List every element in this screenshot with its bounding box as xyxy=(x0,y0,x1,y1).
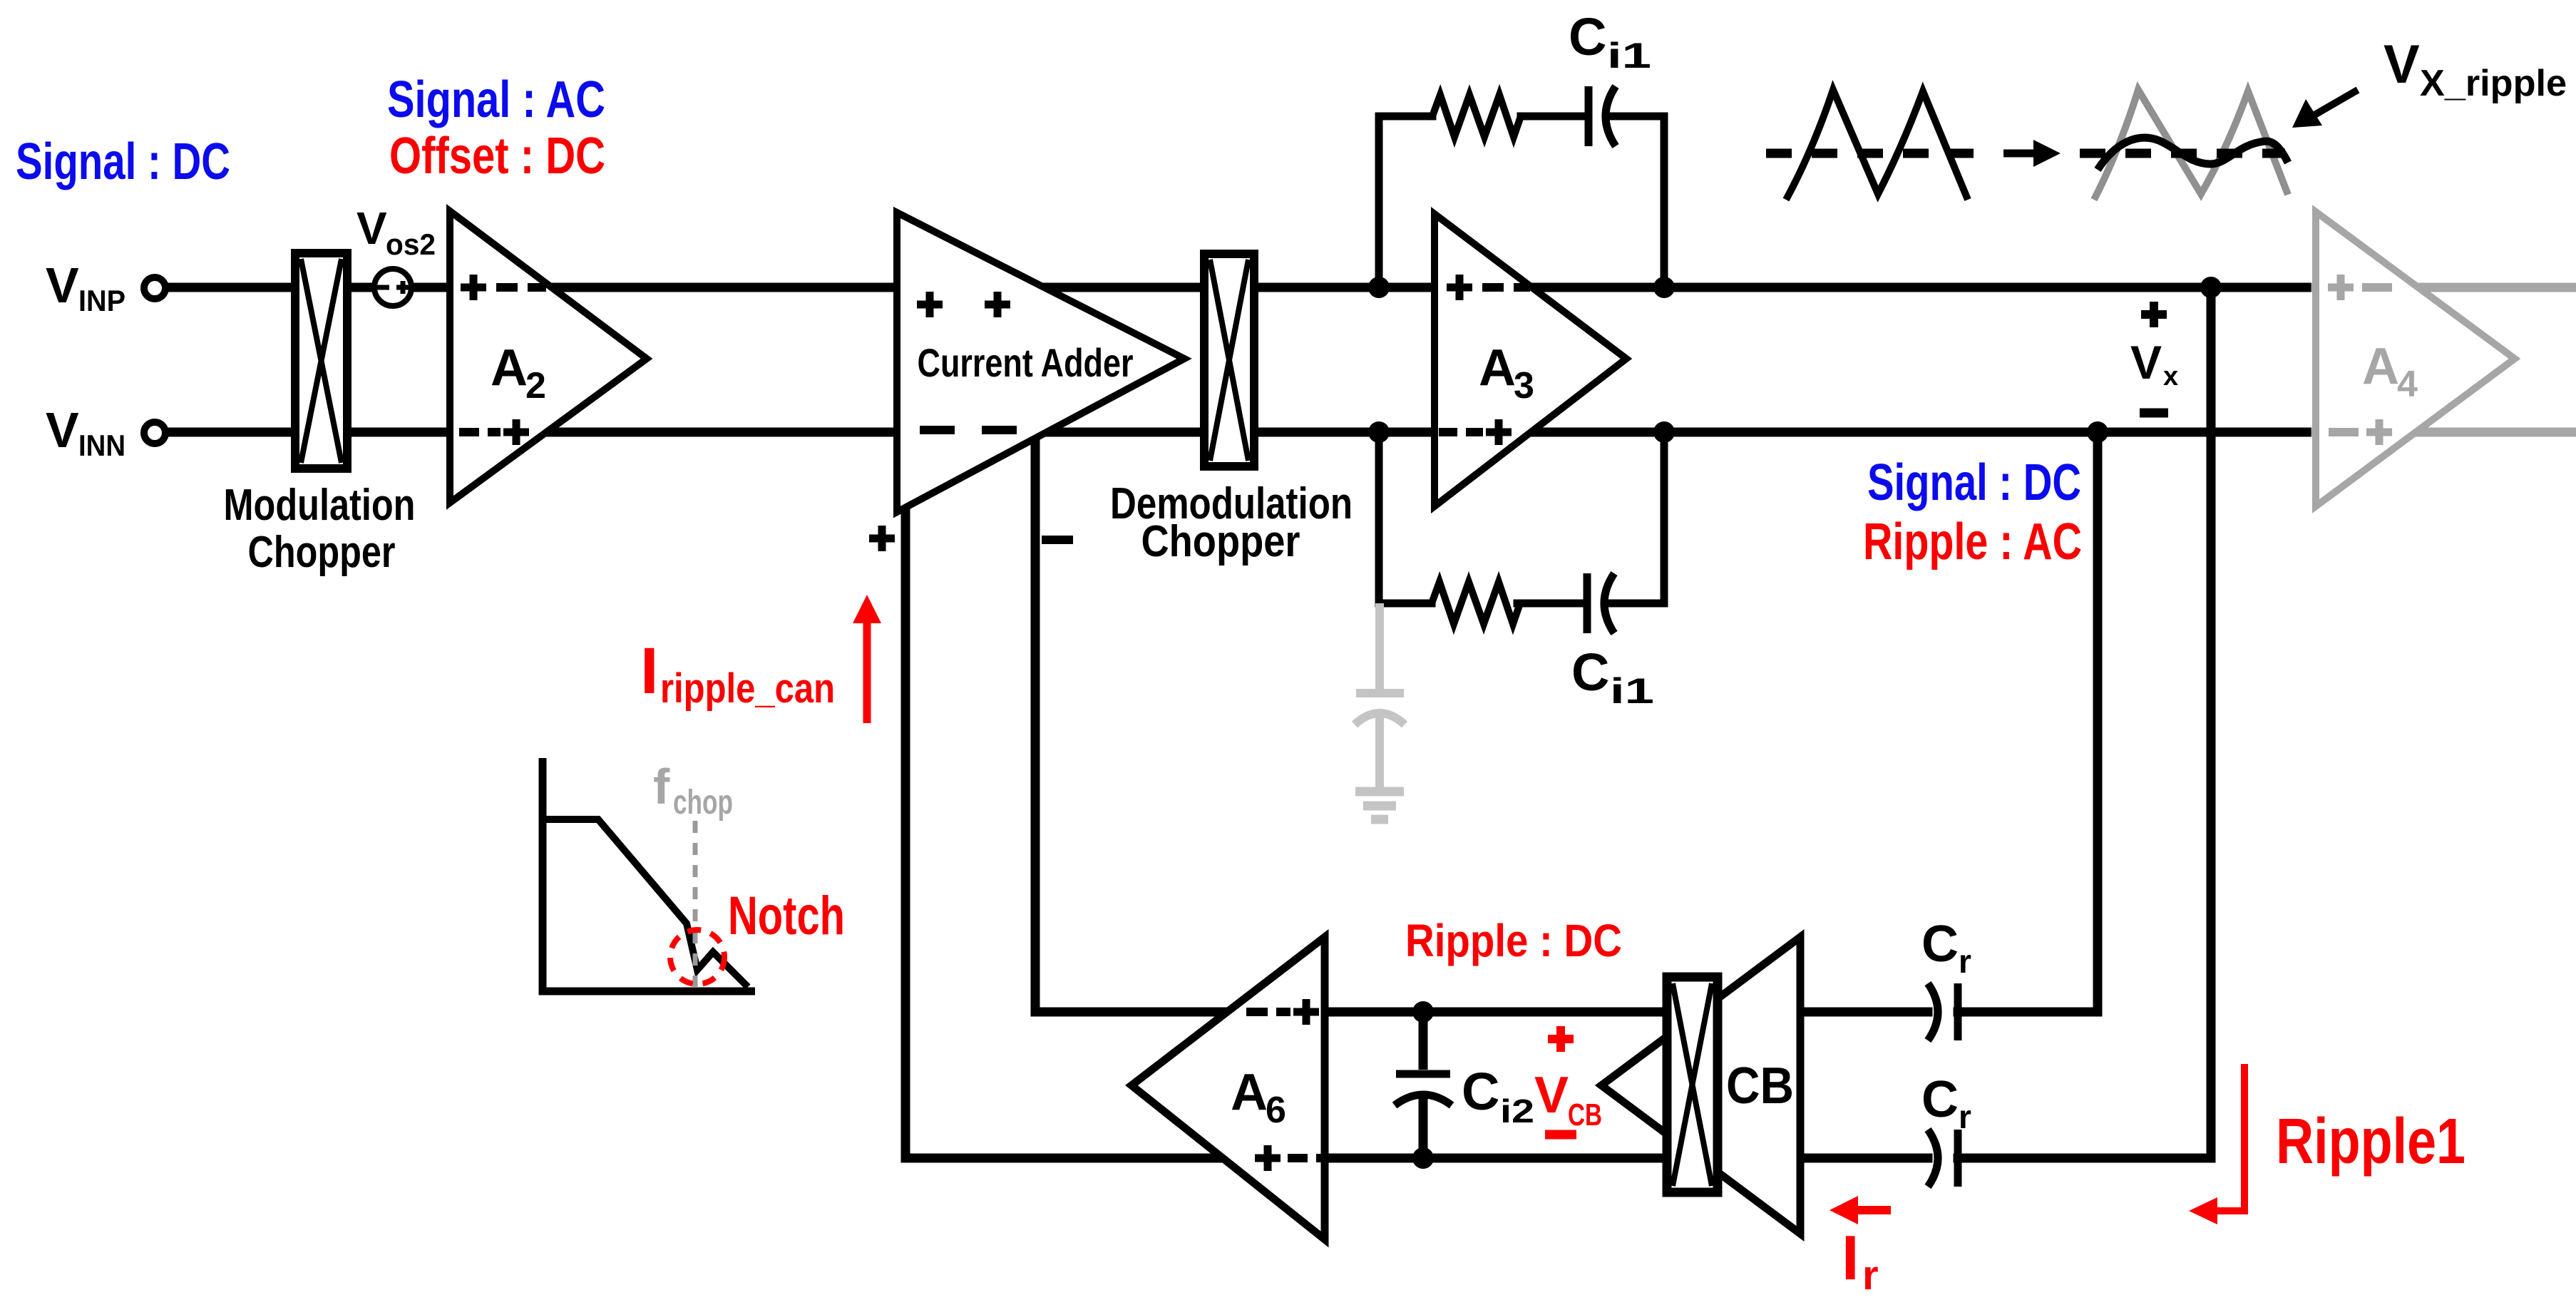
svg-text:C: C xyxy=(1462,1062,1499,1121)
wire vertical from top main wire down to ripple-loop bottom wire xyxy=(2207,287,2216,1158)
svg-text:CB: CB xyxy=(1568,1097,1602,1132)
svg-text:V: V xyxy=(2383,34,2420,95)
svg-text:i1: i1 xyxy=(1610,671,1654,711)
Current Adder bottom input marks (- -) xyxy=(920,426,1018,434)
capacitor Ci2 (vertical, straight top plate, curved bottom plate) xyxy=(1419,1012,1428,1070)
node: bottom wire / left feedback tap xyxy=(1368,421,1390,443)
svg-text:A: A xyxy=(1479,339,1516,396)
red label VCB with + and - xyxy=(1548,1026,1574,1052)
svg-text:C: C xyxy=(1921,1071,1959,1128)
Current Adder lower input - label xyxy=(1042,536,1073,544)
svg-text:ripple_can: ripple_can xyxy=(660,665,835,712)
op-amp A2 xyxy=(450,211,647,503)
dashed baseline right waveform xyxy=(2080,149,2285,158)
notch sketch: response curve with notch xyxy=(546,819,748,987)
svg-text:f: f xyxy=(653,759,670,814)
capacitor Ci1 bottom xyxy=(1584,573,1591,633)
terminal VINN xyxy=(144,422,165,444)
svg-text:C: C xyxy=(1571,643,1609,702)
svg-text:Chopper: Chopper xyxy=(248,528,396,577)
A6 top input marks (dashes then +) xyxy=(1246,1008,1290,1016)
svg-text:INP: INP xyxy=(78,284,125,317)
black reduced-ripple wave over gray xyxy=(2098,138,2288,170)
svg-text:r: r xyxy=(1862,1252,1879,1299)
gray ground symbol xyxy=(1355,792,1404,819)
svg-text:I: I xyxy=(640,635,659,707)
A3 top input marks (+ then dashes) xyxy=(1447,275,1472,300)
red dashed circle around notch xyxy=(670,930,724,984)
svg-text:Notch: Notch xyxy=(728,886,845,946)
modulation chopper box xyxy=(295,253,347,469)
A3 feedback top branch: vertical right xyxy=(1661,116,1668,287)
op-amp A3 xyxy=(1435,214,1626,506)
junction node dot Vx bottom xyxy=(2087,421,2108,443)
svg-text:Modulation: Modulation xyxy=(224,481,416,530)
svg-text:3: 3 xyxy=(1514,365,1534,406)
waveform sketch right (gray triangle wave) xyxy=(2094,90,2288,200)
wire gray continuation of top line into A4 xyxy=(2316,283,2576,292)
svg-text:V: V xyxy=(356,203,387,254)
svg-text:i1: i1 xyxy=(1607,36,1651,76)
svg-text:V: V xyxy=(46,257,79,313)
op-amp A6 (points left) xyxy=(1132,937,1325,1239)
wire vertical from bottom main wire down to ripple-loop top wire xyxy=(2093,432,2103,1012)
A3 feedback top branch: horizontal with resistor + cap gaps xyxy=(1379,113,1664,121)
svg-text:Ripple1: Ripple1 xyxy=(2276,1106,2465,1177)
svg-text:CB: CB xyxy=(1726,1058,1794,1115)
svg-text:i2: i2 xyxy=(1500,1092,1534,1130)
A2 top input marks (+ then dashes) xyxy=(461,275,486,300)
red bracket arrow Ripple1 xyxy=(2215,1064,2244,1211)
wire vertical from Current Adder plus input down to loop bottom xyxy=(901,506,910,1158)
svg-text:A: A xyxy=(1231,1064,1268,1121)
svg-text:r: r xyxy=(1959,943,1971,980)
svg-text:x: x xyxy=(2163,362,2178,391)
terminal VINP xyxy=(144,277,165,299)
arrow to VX_ripple label xyxy=(2312,90,2358,116)
wire gray continuation of bottom line into A4 xyxy=(2316,428,2576,437)
Current Adder top input marks (+ +) xyxy=(917,292,943,317)
A3 bottom input marks (dashes then +) xyxy=(1439,428,1483,436)
red up arrow for Iripple_can xyxy=(863,615,871,723)
A3 feedback bottom branch: vertical left xyxy=(1375,432,1383,603)
node: bottom wire / right feedback tap xyxy=(1653,421,1675,443)
svg-text:Offset : DC: Offset : DC xyxy=(389,128,605,185)
capacitor Ci1 top (straight left plate, curved right plate) xyxy=(1585,86,1593,146)
wire vertical from Current Adder minus input down to loop top xyxy=(1031,439,1040,1012)
svg-text:4: 4 xyxy=(2397,364,2418,405)
wire ripple-loop top (A6 top input to CB chopper and Cr) xyxy=(1035,1008,2098,1017)
svg-text:6: 6 xyxy=(1266,1090,1286,1131)
svg-text:Signal : DC: Signal : DC xyxy=(16,133,230,190)
svg-text:V: V xyxy=(46,402,79,458)
A3 feedback bottom branch: horizontal with gaps xyxy=(1379,600,1664,608)
svg-text:A: A xyxy=(2362,338,2399,395)
wire top main differential line xyxy=(165,283,2316,292)
Current Adder lower input + label xyxy=(869,526,895,551)
CB chopper box xyxy=(1667,977,1718,1192)
A2 bottom input marks (dashes then +) xyxy=(459,428,501,436)
node: top wire / left feedback tap xyxy=(1368,277,1390,298)
junction node dot Vx top xyxy=(2200,277,2222,298)
A4 bottom input marks gray (dash then +) xyxy=(2329,428,2359,436)
op-amp A4 (gray) xyxy=(2316,212,2515,506)
waveform sketch left (black triangle wave) xyxy=(1786,90,1968,200)
svg-text:Current Adder: Current Adder xyxy=(918,340,1134,385)
A6 bottom input marks (+ then dashes) xyxy=(1255,1145,1281,1171)
svg-text:Chopper: Chopper xyxy=(1141,517,1300,566)
dashed baseline left waveform xyxy=(1766,149,1974,158)
svg-text:Ripple : DC: Ripple : DC xyxy=(1405,915,1622,966)
capacitor Cr top (curved left plate, straight right plate) xyxy=(1928,983,1938,1040)
svg-text:X_ripple: X_ripple xyxy=(2420,63,2567,104)
wire bottom main differential line xyxy=(165,428,2316,437)
label Vx with + and - xyxy=(2141,302,2167,327)
wire ripple-loop bottom (A6 bottom input to CB chopper and Cr) xyxy=(905,1154,2211,1163)
CB output amplifier triangle (points left) xyxy=(1601,937,1800,1234)
svg-text:I: I xyxy=(1842,1222,1859,1293)
red arrow Ir xyxy=(1851,1206,1891,1214)
gray capacitor to ground below bottom branch xyxy=(1355,603,1405,792)
node: loop top wire at Ci2 xyxy=(1412,1001,1434,1023)
A4 top input marks gray (+ then dash) xyxy=(2328,275,2354,300)
svg-text:2: 2 xyxy=(525,365,546,406)
notch sketch: gray dashed fchop vertical xyxy=(693,821,698,993)
node: top wire / right feedback tap xyxy=(1653,277,1675,298)
A3 feedback top branch: vertical left xyxy=(1375,116,1383,287)
svg-text:V: V xyxy=(1534,1067,1569,1124)
svg-text:C: C xyxy=(1569,7,1606,66)
resistor in top feedback branch xyxy=(1432,95,1521,137)
op-amp Current Adder xyxy=(897,213,1184,512)
svg-text:r: r xyxy=(1959,1098,1971,1135)
offset source Vos2 circle xyxy=(374,269,411,306)
A3 feedback bottom branch: vertical right xyxy=(1661,432,1668,603)
svg-text:Signal : DC: Signal : DC xyxy=(1867,454,2081,511)
svg-text:Signal : AC: Signal : AC xyxy=(387,71,605,128)
svg-text:os2: os2 xyxy=(386,227,436,261)
arrow between waveforms xyxy=(2003,150,2038,158)
notch sketch: axes xyxy=(543,758,755,991)
demodulation chopper box xyxy=(1204,254,1254,466)
svg-text:A: A xyxy=(491,339,528,396)
capacitor Cr bottom xyxy=(1928,1130,1938,1187)
svg-text:INN: INN xyxy=(78,429,125,462)
svg-text:chop: chop xyxy=(673,784,733,822)
svg-text:V: V xyxy=(2130,336,2162,389)
svg-text:C: C xyxy=(1921,916,1959,973)
svg-text:Ripple : AC: Ripple : AC xyxy=(1863,513,2082,570)
node: loop bottom wire at Ci2 xyxy=(1412,1147,1434,1169)
resistor in bottom feedback branch xyxy=(1432,582,1520,624)
